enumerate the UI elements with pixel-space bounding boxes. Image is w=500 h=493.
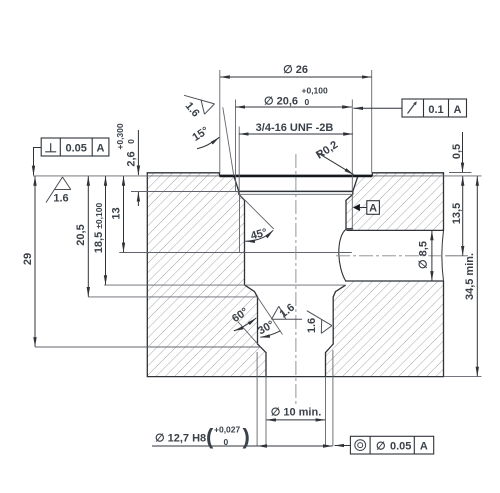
datum A box bbox=[353, 201, 380, 215]
arc 60 deg bbox=[234, 318, 257, 331]
13.5 lower reference line bbox=[446, 255, 468, 257]
extension line diam 26 right bbox=[371, 70, 373, 173]
15 deg helper line bbox=[223, 107, 234, 176]
svg-text:1.6: 1.6 bbox=[53, 193, 68, 205]
dimension 13.5 bbox=[462, 176, 464, 255]
svg-text:+0,300: +0,300 bbox=[115, 123, 125, 150]
dimension line thread bbox=[239, 133, 353, 135]
svg-text:(: ( bbox=[206, 424, 214, 449]
svg-text:0: 0 bbox=[305, 97, 310, 107]
cone 30deg lower bbox=[258, 344, 334, 353]
34.5 bottom reference line bbox=[444, 376, 482, 378]
svg-text:): ) bbox=[243, 424, 250, 449]
arc 30 deg bbox=[260, 331, 280, 338]
leader runout FCF bbox=[353, 107, 402, 109]
sealing face thick line bbox=[220, 175, 373, 178]
side hole silhouette on outer face bbox=[442, 230, 444, 281]
extension line diam 20.6 left bbox=[235, 100, 237, 192]
svg-text:A: A bbox=[420, 440, 428, 452]
svg-text:∅: ∅ bbox=[376, 440, 386, 452]
dimension 2.6 stubs bbox=[137, 130, 139, 175]
svg-text:1.6: 1.6 bbox=[306, 318, 318, 333]
arc 15 deg bbox=[197, 137, 219, 149]
part outline: left wall and bottom bbox=[147, 173, 443, 377]
svg-text:∅ 26: ∅ 26 bbox=[283, 64, 308, 76]
dimension line diam 20.6 bbox=[236, 106, 352, 108]
counterbore floor bbox=[239, 190, 353, 192]
cone 60deg right bbox=[333, 285, 345, 297]
roughness symbol 2 (near 15 deg cone) bbox=[184, 95, 214, 114]
svg-text:∅ 10 min.: ∅ 10 min. bbox=[271, 407, 322, 419]
svg-text:0.05: 0.05 bbox=[390, 440, 411, 452]
60 deg helper line (upper cone extension) bbox=[258, 297, 283, 334]
side hole 8.5 walls bbox=[346, 230, 444, 281]
svg-text:0,5: 0,5 bbox=[451, 144, 463, 159]
svg-text:∅ 20,6: ∅ 20,6 bbox=[264, 96, 298, 108]
svg-text:2,6: 2,6 bbox=[126, 151, 138, 166]
svg-text:0.1: 0.1 bbox=[428, 104, 443, 116]
centerline vertical bbox=[295, 154, 297, 404]
FCF concentricity 0.05 A bbox=[350, 436, 433, 454]
leader R0.2 bbox=[316, 152, 354, 175]
hatch right block upper bbox=[346, 173, 444, 231]
0.5 upper reference line bbox=[449, 172, 472, 174]
extension line diam 26 left bbox=[219, 70, 221, 173]
svg-text:∅ 12,7 H8: ∅ 12,7 H8 bbox=[155, 433, 206, 445]
dimension diam 12.7 text underline bbox=[152, 445, 257, 447]
extension lines diam 10 bbox=[266, 377, 326, 446]
leader concentricity FCF bbox=[335, 445, 351, 447]
cone 60deg left bbox=[245, 285, 258, 297]
18.5 reference line bbox=[104, 284, 345, 286]
dimension 34.5 bbox=[476, 176, 478, 376]
bore 12.7 walls bbox=[258, 297, 334, 344]
15 deg cone right bbox=[346, 176, 358, 201]
hatch left block bbox=[147, 173, 266, 377]
part outline: right wall bbox=[443, 173, 445, 377]
extension lines diam 12.7 bbox=[257, 350, 333, 446]
bore 10 walls bbox=[266, 353, 326, 377]
dimension diam 10 bbox=[266, 419, 325, 421]
svg-text:18,5 ±0,100: 18,5 ±0,100 bbox=[93, 203, 105, 254]
svg-text:∅ 8,5: ∅ 8,5 bbox=[418, 241, 430, 269]
side hole mouth curve in bore bbox=[339, 229, 346, 281]
extension line sealing face left bbox=[33, 175, 220, 177]
29 reference line bbox=[35, 346, 261, 348]
svg-text:3/4-16 UNF -2B: 3/4-16 UNF -2B bbox=[256, 122, 334, 134]
thread major line right bbox=[351, 194, 353, 229]
svg-text:34,5 min.: 34,5 min. bbox=[464, 253, 476, 300]
svg-text:0.05: 0.05 bbox=[65, 143, 86, 155]
dimension 29 bbox=[34, 176, 36, 347]
svg-text:A: A bbox=[454, 104, 462, 116]
svg-text:13: 13 bbox=[111, 207, 123, 219]
extension line sealing face right bbox=[372, 175, 481, 177]
chamfer edge line bbox=[240, 193, 353, 195]
hatch right block lower bbox=[326, 281, 444, 377]
extension line thread left bbox=[238, 127, 240, 192]
thread major line left bbox=[239, 193, 241, 253]
svg-text:A: A bbox=[97, 143, 105, 155]
thread depth line 13 bbox=[119, 252, 351, 254]
dimension diam 8.5 bbox=[431, 231, 433, 281]
FCF perpendicularity 0.05 A bbox=[41, 138, 109, 156]
dimension diam 12.7 bbox=[257, 445, 332, 447]
svg-text:A: A bbox=[369, 202, 377, 214]
svg-text:13,5: 13,5 bbox=[451, 203, 463, 224]
svg-text:20,5: 20,5 bbox=[75, 224, 87, 245]
30 deg helper line (lower cone extension) bbox=[238, 322, 258, 344]
dimension 18.5 bbox=[105, 176, 107, 285]
leader perpendicularity FCF bbox=[34, 148, 42, 176]
dimension line diam 26 bbox=[220, 76, 371, 78]
svg-text:+0,027: +0,027 bbox=[214, 425, 241, 435]
extension line diam 20.6 right / thread right bbox=[351, 100, 353, 192]
roughness symbol 3 (on 60 deg cone ext) bbox=[272, 306, 303, 319]
part outline: raw top faces bbox=[147, 173, 443, 176]
roughness symbol 1 (on sealing face ext line) bbox=[46, 177, 71, 203]
45 deg helper line bbox=[239, 195, 273, 230]
dimension 0.5 stub bbox=[462, 132, 464, 172]
svg-text:0: 0 bbox=[224, 437, 229, 447]
dimension 20.5 bbox=[87, 176, 89, 296]
centerline side hole bbox=[336, 255, 447, 257]
svg-text:29: 29 bbox=[22, 253, 34, 265]
roughness symbol 4 (on bore 12.7 wall) bbox=[307, 311, 332, 334]
2.6 lower reference line bbox=[131, 191, 239, 193]
20.5 reference line bbox=[88, 296, 257, 298]
dimension 13 bbox=[123, 176, 125, 252]
FCF runout 0.1 A bbox=[402, 99, 467, 117]
svg-text:0: 0 bbox=[126, 139, 136, 144]
15 deg cone left bbox=[234, 176, 245, 201]
svg-text:+0,100: +0,100 bbox=[302, 86, 329, 96]
arc 45 deg bbox=[245, 230, 273, 241]
thread minor wall right bbox=[346, 200, 353, 229]
thread minor wall left bbox=[244, 200, 246, 285]
